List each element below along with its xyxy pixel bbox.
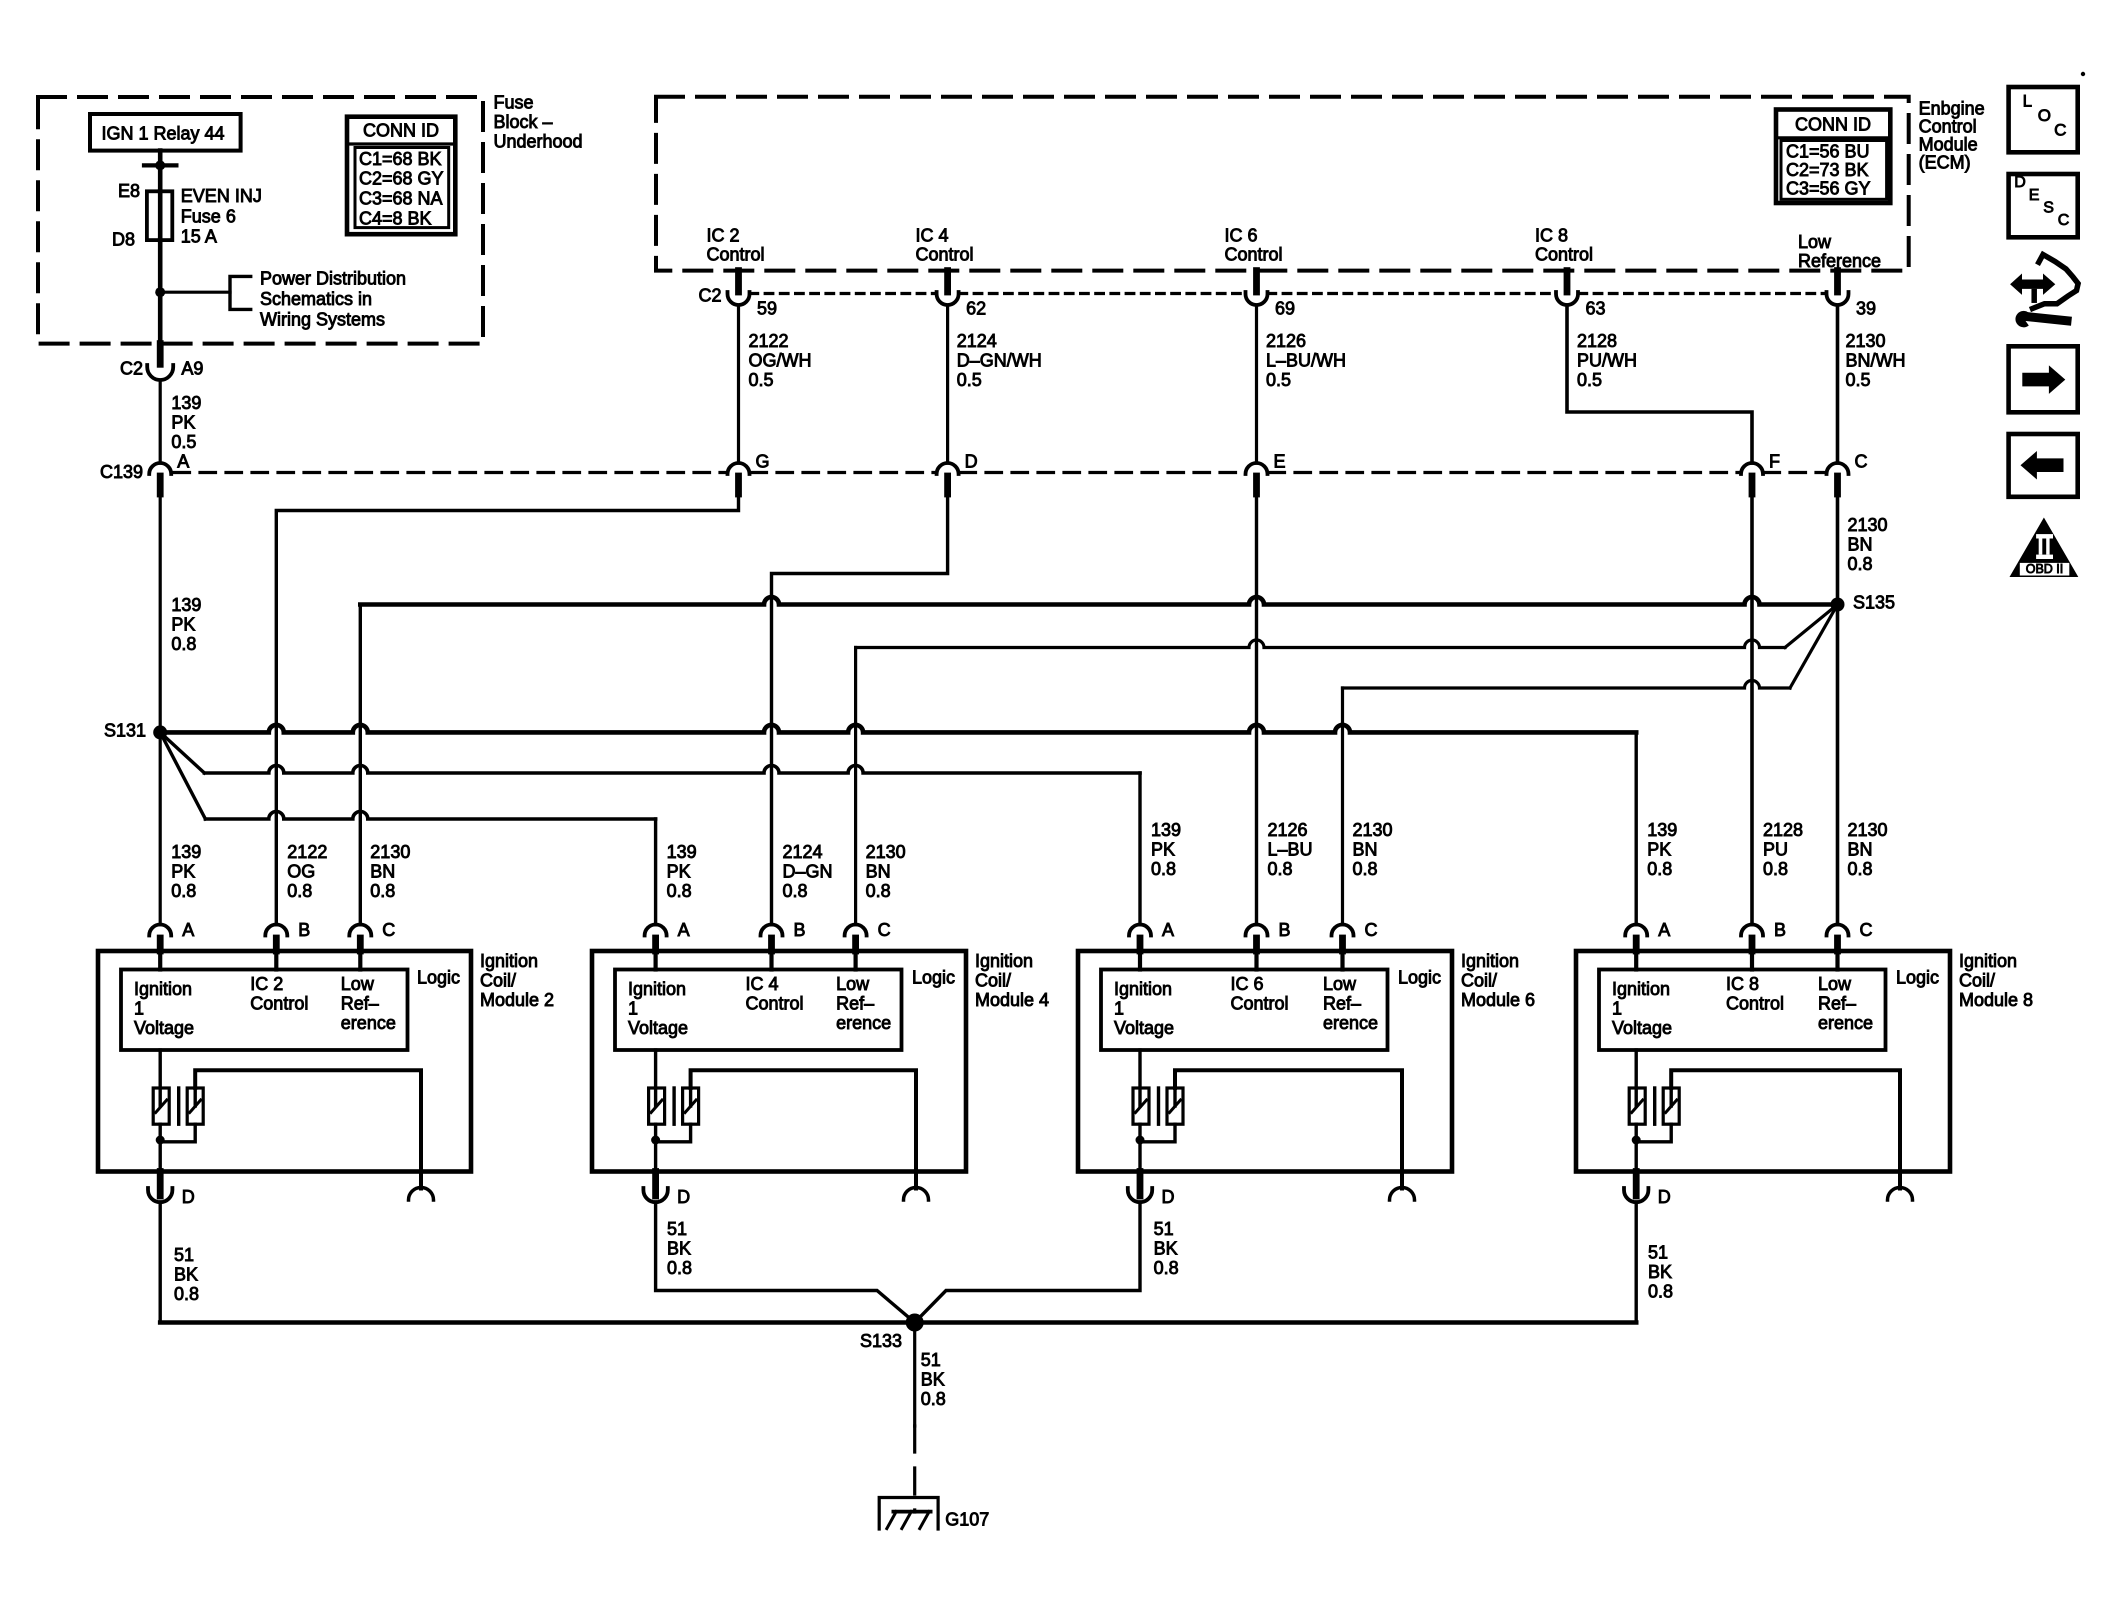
svg-text:51: 51: [667, 1219, 687, 1239]
svg-text:1: 1: [134, 998, 144, 1018]
wire 2122 OG to module 2 pin B: [276, 494, 738, 925]
connector pin D module 2: [157, 1172, 164, 1197]
svg-text:IC 4: IC 4: [746, 974, 779, 994]
svg-text:51: 51: [1648, 1243, 1668, 1263]
svg-text:Control: Control: [707, 245, 765, 265]
svg-text:0.8: 0.8: [1648, 1282, 1673, 1302]
svg-text:0.8: 0.8: [866, 881, 891, 901]
wire 2124 D-GN to module 4 pin B: [772, 494, 948, 925]
coil common junction module 2: [158, 1124, 161, 1171]
secondary lead module 8: [1671, 1070, 1900, 1188]
svg-text:Voltage: Voltage: [134, 1018, 194, 1038]
svg-text:OG: OG: [287, 862, 315, 882]
svg-text:C3=68 NA: C3=68 NA: [359, 189, 443, 209]
ignition coil/module 4 outer box: [592, 951, 966, 1172]
svg-text:IC 6: IC 6: [1231, 974, 1264, 994]
svg-text:2124: 2124: [957, 331, 997, 351]
svg-text:0.8: 0.8: [921, 1389, 946, 1409]
ignition coil primary winding module 4: [654, 1050, 657, 1106]
coil core module 6: [1157, 1088, 1160, 1124]
connector pin A module 8: [1625, 925, 1647, 936]
svg-text:IC 4: IC 4: [916, 226, 949, 246]
svg-text:Module 2: Module 2: [480, 990, 554, 1010]
svg-text:Low: Low: [1798, 232, 1832, 252]
connector pin B module 4: [761, 925, 783, 936]
spark plug terminal module 4: [904, 1188, 929, 1201]
svg-text:Voltage: Voltage: [1612, 1018, 1672, 1038]
svg-text:C: C: [382, 920, 395, 940]
svg-text:139: 139: [171, 842, 201, 862]
svg-text:B: B: [1279, 920, 1291, 940]
ground bus 51 BK: [160, 1320, 1636, 1325]
connector pin A module 6: [1129, 925, 1151, 936]
svg-text:Underhood: Underhood: [494, 132, 583, 152]
svg-text:0.5: 0.5: [957, 370, 982, 390]
svg-text:C3=56 GY: C3=56 GY: [1786, 179, 1871, 199]
secondary lead module 2: [195, 1070, 421, 1188]
svg-text:0.8: 0.8: [1763, 859, 1788, 879]
ignition coil/module 2 outer box: [98, 951, 471, 1172]
wire S133 to ground: [913, 1323, 916, 1427]
svg-text:Coil/: Coil/: [480, 971, 516, 991]
svg-text:2130: 2130: [1353, 820, 1393, 840]
spark plug terminal module 2: [409, 1188, 434, 1201]
svg-text:D: D: [1162, 1187, 1175, 1207]
ignition coil/module 6 outer box: [1078, 951, 1452, 1172]
svg-text:62: 62: [966, 299, 986, 319]
coil core module 2: [177, 1088, 180, 1124]
icon forward arrow box: [2009, 346, 2078, 412]
ECM connector pin 62: [944, 271, 951, 292]
svg-text:PK: PK: [171, 412, 195, 432]
svg-text:B: B: [298, 920, 310, 940]
icon wiring diagram symbol (arrow and wrench): [2010, 274, 2055, 295]
svg-text:OG/WH: OG/WH: [749, 351, 812, 371]
svg-text:0.8: 0.8: [667, 1258, 692, 1278]
svg-text:C4=8 BK: C4=8 BK: [359, 208, 432, 228]
wire IC2 control: [737, 305, 740, 463]
svg-text:E: E: [1274, 452, 1286, 472]
svg-text:Fuse 6: Fuse 6: [181, 206, 236, 226]
svg-text:69: 69: [1275, 299, 1295, 319]
svg-text:2130: 2130: [370, 842, 410, 862]
svg-text:Ignition: Ignition: [628, 979, 686, 999]
secondary lead module 6: [1175, 1070, 1402, 1188]
connector C139 cavity F: [1741, 463, 1763, 474]
svg-text:BK: BK: [667, 1239, 691, 1259]
svg-text:0.8: 0.8: [1268, 859, 1293, 879]
svg-text:0.5: 0.5: [749, 370, 774, 390]
module 2 pin leads inside box: [158, 951, 162, 970]
svg-text:PK: PK: [171, 614, 195, 634]
svg-text:L–BU: L–BU: [1268, 840, 1313, 860]
connector pin A module 2: [149, 925, 171, 936]
wire 2128 PU to module 8 pin B: [1750, 494, 1754, 925]
svg-text:IC 8: IC 8: [1726, 974, 1759, 994]
wire module 4 pin D to S133: [656, 1202, 915, 1323]
ECM connector pin 69: [1253, 271, 1260, 292]
svg-text:Power Distribution: Power Distribution: [260, 268, 406, 288]
svg-text:0.8: 0.8: [370, 881, 395, 901]
svg-text:BN: BN: [1353, 840, 1378, 860]
ignition coil primary winding module 2: [158, 1050, 161, 1106]
svg-text:1: 1: [1114, 998, 1124, 1018]
ECM dashed enclosure: [656, 97, 1909, 271]
svg-text:2124: 2124: [783, 842, 823, 862]
svg-text:PK: PK: [171, 862, 195, 882]
svg-text:Control: Control: [1535, 245, 1593, 265]
svg-text:D: D: [1658, 1187, 1671, 1207]
fuse F6: EVEN INJ Fuse 6 15 A: [158, 191, 163, 240]
svg-text:0.8: 0.8: [174, 1284, 199, 1304]
module 6 inner terminal box: [1101, 970, 1388, 1051]
svg-text:1: 1: [628, 998, 638, 1018]
svg-text:2130: 2130: [1848, 515, 1888, 535]
svg-text:Ignition: Ignition: [975, 951, 1033, 971]
svg-text:erence: erence: [1323, 1013, 1378, 1033]
svg-text:Control: Control: [1726, 994, 1784, 1014]
ground G107: [879, 1498, 938, 1530]
svg-text:Ignition: Ignition: [1114, 979, 1172, 999]
svg-text:S133: S133: [860, 1331, 902, 1351]
svg-text:CONN ID: CONN ID: [1795, 115, 1871, 135]
svg-text:Logic: Logic: [1398, 968, 1441, 988]
svg-text:C: C: [1365, 920, 1378, 940]
svg-text:Coil/: Coil/: [1959, 971, 1995, 991]
icon back arrow box: [2009, 434, 2078, 497]
connector pin B module 6: [1246, 925, 1268, 936]
svg-text:BN/WH: BN/WH: [1846, 351, 1906, 371]
connector pin C module 2: [349, 925, 371, 936]
svg-text:Low: Low: [836, 974, 870, 994]
svg-text:Logic: Logic: [912, 968, 955, 988]
svg-text:F: F: [1769, 452, 1780, 472]
svg-text:B: B: [794, 920, 806, 940]
svg-text:S131: S131: [104, 721, 146, 741]
connector row dotted line C2: [750, 292, 936, 295]
svg-text:2130: 2130: [1848, 820, 1888, 840]
svg-text:Low: Low: [341, 974, 375, 994]
connector pin D module 4: [652, 1172, 659, 1197]
connector pin C module 6: [1332, 925, 1354, 936]
svg-text:O: O: [2038, 106, 2051, 125]
svg-text:Module 6: Module 6: [1461, 990, 1535, 1010]
svg-text:2130: 2130: [866, 842, 906, 862]
svg-text:Module 4: Module 4: [975, 990, 1049, 1010]
svg-text:D–GN: D–GN: [783, 862, 833, 882]
svg-text:Control: Control: [746, 994, 804, 1014]
svg-text:Control: Control: [1225, 245, 1283, 265]
svg-text:Low: Low: [1323, 974, 1357, 994]
svg-text:IC 2: IC 2: [250, 974, 283, 994]
svg-text:A: A: [1658, 920, 1670, 940]
wire low reference: [1836, 305, 1840, 463]
svg-text:Fuse: Fuse: [494, 93, 534, 113]
coil common junction module 4: [654, 1124, 657, 1171]
connector C139 cavity E: [1246, 463, 1268, 474]
wire S135 branch to module 6 pin C: [1790, 605, 1838, 689]
svg-text:0.5: 0.5: [1846, 370, 1871, 390]
svg-text:139: 139: [667, 842, 697, 862]
svg-text:PU/WH: PU/WH: [1577, 351, 1637, 371]
svg-text:63: 63: [1586, 299, 1606, 319]
relay K: IGN 1 Relay 44: [90, 114, 241, 151]
wire module 2 pin D to ground bus: [158, 1202, 161, 1323]
svg-text:D–GN/WH: D–GN/WH: [957, 351, 1042, 371]
connector pin D module 6: [1137, 1172, 1144, 1197]
svg-text:Ref–: Ref–: [1323, 994, 1361, 1014]
svg-text:Control: Control: [1919, 117, 1977, 137]
svg-text:51: 51: [174, 1245, 194, 1265]
wire S131 branch to module 4 pin A: [160, 732, 205, 819]
svg-text:C: C: [1855, 452, 1868, 472]
svg-text:D: D: [2014, 174, 2026, 191]
svg-text:BN: BN: [866, 862, 891, 882]
wire 139 PK to C139: [159, 380, 162, 463]
wire junction to bracket: [160, 291, 230, 294]
coil common junction module 6: [1138, 1124, 1141, 1171]
svg-text:Ignition: Ignition: [1461, 951, 1519, 971]
svg-text:51: 51: [1154, 1219, 1174, 1239]
svg-text:0.8: 0.8: [171, 634, 196, 654]
connector C139 cavity C: [1827, 463, 1849, 474]
wire S135 branch to module 2 pin C: [360, 597, 1837, 604]
svg-text:2122: 2122: [287, 842, 327, 862]
svg-text:E8: E8: [118, 181, 140, 201]
connector pin C module 8: [1827, 925, 1849, 936]
svg-text:Voltage: Voltage: [628, 1018, 688, 1038]
svg-text:0.8: 0.8: [171, 881, 196, 901]
icon OBD II triangle: [2010, 518, 2079, 578]
wire module 8 pin D to ground bus: [1634, 1202, 1637, 1323]
connector row C139 dashed line: [174, 471, 726, 474]
module 6 pin leads inside box: [1138, 951, 1142, 970]
svg-text:0.8: 0.8: [1647, 859, 1672, 879]
svg-text:Control: Control: [250, 994, 308, 1014]
svg-text:C: C: [2058, 212, 2070, 229]
coil core module 4: [672, 1088, 675, 1124]
svg-text:2126: 2126: [1268, 820, 1308, 840]
svg-text:D: D: [182, 1187, 195, 1207]
wire 2126 L-BU to module 6 pin B: [1255, 494, 1258, 925]
svg-text:Control: Control: [1231, 994, 1289, 1014]
svg-text:0.8: 0.8: [1848, 554, 1873, 574]
svg-text:S: S: [2043, 200, 2054, 217]
connector pin B module 2: [265, 925, 287, 936]
svg-text:D8: D8: [112, 229, 135, 249]
ignition coil secondary winding module 6: [1167, 1088, 1183, 1124]
svg-text:2130: 2130: [1846, 331, 1886, 351]
svg-text:Logic: Logic: [1896, 968, 1939, 988]
svg-text:2128: 2128: [1763, 820, 1803, 840]
ECM connector pin 39: [1834, 271, 1841, 292]
connector C2 pin A9 (fuse block output): [157, 344, 164, 365]
module 2 inner terminal box: [121, 970, 408, 1051]
svg-text:IC 8: IC 8: [1535, 226, 1568, 246]
wire IC8 control with jog: [1567, 305, 1752, 463]
svg-text:erence: erence: [836, 1013, 891, 1033]
connector C139 cavity D: [937, 463, 959, 474]
svg-text:0.8: 0.8: [287, 881, 312, 901]
connector C139 cavity A: [149, 463, 171, 474]
ignition coil primary winding module 6: [1138, 1050, 1141, 1106]
svg-text:0.5: 0.5: [171, 432, 196, 452]
svg-text:Block –: Block –: [494, 112, 553, 132]
ignition coil secondary winding module 8: [1663, 1088, 1679, 1124]
svg-text:1: 1: [1612, 998, 1622, 1018]
ignition coil secondary winding module 4: [683, 1088, 699, 1124]
svg-text:Ref–: Ref–: [836, 994, 874, 1014]
svg-text:(ECM): (ECM): [1919, 153, 1971, 173]
connector C139 cavity G: [728, 463, 750, 474]
svg-text:A: A: [182, 920, 194, 940]
svg-text:Wiring Systems: Wiring Systems: [260, 310, 385, 330]
svg-text:erence: erence: [1818, 1013, 1873, 1033]
svg-text:Voltage: Voltage: [1114, 1018, 1174, 1038]
svg-text:139: 139: [171, 595, 201, 615]
svg-text:B: B: [1774, 920, 1786, 940]
svg-text:Logic: Logic: [417, 968, 460, 988]
svg-text:Ignition: Ignition: [1612, 979, 1670, 999]
svg-text:Module: Module: [1919, 135, 1978, 155]
svg-text:C: C: [1860, 920, 1873, 940]
svg-text:Ignition: Ignition: [134, 979, 192, 999]
svg-text:C2=68 GY: C2=68 GY: [359, 169, 444, 189]
svg-text:EVEN INJ: EVEN INJ: [181, 186, 262, 206]
stray mark top right: [2081, 72, 2085, 76]
svg-text:D: D: [965, 452, 978, 472]
svg-text:2128: 2128: [1577, 331, 1617, 351]
svg-text:Ref–: Ref–: [341, 994, 379, 1014]
wire IC4 control: [946, 305, 949, 463]
svg-text:C2=73 BK: C2=73 BK: [1786, 160, 1869, 180]
svg-text:Control: Control: [916, 245, 974, 265]
svg-text:L: L: [2023, 92, 2032, 111]
spark plug terminal module 8: [1888, 1188, 1913, 1201]
svg-text:PK: PK: [667, 862, 691, 882]
svg-text:A: A: [678, 920, 690, 940]
svg-text:IC 2: IC 2: [707, 226, 740, 246]
svg-text:15 A: 15 A: [181, 227, 217, 247]
svg-text:C2: C2: [120, 359, 143, 379]
svg-text:BN: BN: [1848, 840, 1873, 860]
svg-text:0.8: 0.8: [1353, 859, 1378, 879]
svg-text:Schematics in: Schematics in: [260, 289, 372, 309]
svg-text:Coil/: Coil/: [975, 971, 1011, 991]
svg-text:BK: BK: [1154, 1239, 1178, 1259]
connector pin D module 8: [1633, 1172, 1640, 1197]
wire 2130 BN to S135: [1836, 494, 1840, 925]
svg-text:0.8: 0.8: [1154, 1258, 1179, 1278]
wire module 6 pin D to S133: [915, 1202, 1140, 1323]
svg-text:OBD II: OBD II: [2026, 562, 2064, 576]
svg-text:139: 139: [171, 393, 201, 413]
connector table CONN ID (fuse block): [347, 117, 455, 235]
svg-text:0.5: 0.5: [1266, 370, 1291, 390]
svg-text:BN: BN: [1848, 535, 1873, 555]
wire S135 branch to module 4 pin C: [1785, 605, 1838, 648]
svg-text:C1=68 BK: C1=68 BK: [359, 149, 442, 169]
module 4 pin leads inside box: [653, 951, 657, 970]
svg-text:CONN ID: CONN ID: [363, 120, 439, 140]
svg-text:Ref–: Ref–: [1818, 994, 1856, 1014]
svg-text:Ignition: Ignition: [480, 951, 538, 971]
svg-text:0.5: 0.5: [1577, 370, 1602, 390]
wire relay output: [158, 151, 163, 192]
svg-text:BK: BK: [921, 1369, 945, 1389]
icon LOC box: [2009, 87, 2078, 152]
svg-text:139: 139: [1151, 820, 1181, 840]
splice S135: [1831, 598, 1845, 612]
secondary lead module 4: [691, 1070, 916, 1188]
wire fuse to junction: [158, 240, 163, 344]
svg-text:BK: BK: [174, 1265, 198, 1285]
wire S131 branch to module 8 pin A: [160, 725, 1636, 732]
svg-text:0.8: 0.8: [667, 881, 692, 901]
svg-text:2126: 2126: [1266, 331, 1306, 351]
wire 139 PK to S131: [159, 494, 162, 925]
svg-text:A: A: [1162, 920, 1174, 940]
svg-text:39: 39: [1856, 299, 1876, 319]
svg-text:59: 59: [757, 299, 777, 319]
svg-text:C1=56 BU: C1=56 BU: [1786, 142, 1870, 162]
svg-text:0.8: 0.8: [1848, 859, 1873, 879]
svg-text:S135: S135: [1853, 592, 1895, 612]
svg-text:PU: PU: [1763, 840, 1788, 860]
module 4 inner terminal box: [615, 970, 902, 1051]
ignition coil/module 8 outer box: [1576, 951, 1950, 1172]
ignition coil secondary winding module 2: [187, 1088, 203, 1124]
svg-text:IC 6: IC 6: [1225, 226, 1258, 246]
svg-text:0.8: 0.8: [1151, 859, 1176, 879]
ECM connector pin 63: [1564, 271, 1571, 292]
svg-text:IGN 1 Relay 44: IGN 1 Relay 44: [102, 124, 225, 144]
svg-text:BK: BK: [1648, 1262, 1672, 1282]
wire S131 branch to module 6 pin A: [160, 732, 204, 773]
svg-text:BN: BN: [370, 862, 395, 882]
svg-text:G107: G107: [945, 1510, 989, 1530]
spark plug terminal module 6: [1390, 1188, 1415, 1201]
wire IC6 control: [1255, 305, 1258, 463]
svg-text:G: G: [756, 452, 770, 472]
svg-text:C: C: [878, 920, 891, 940]
svg-text:erence: erence: [341, 1013, 396, 1033]
connector pin C module 4: [845, 925, 867, 936]
splice S131: [153, 725, 167, 739]
junction dot power distribution tap: [155, 287, 165, 297]
connector table CONN ID (ECM): [1776, 110, 1890, 204]
svg-text:51: 51: [921, 1350, 941, 1370]
connector pin B module 8: [1741, 925, 1763, 936]
splice S133: [906, 1314, 924, 1332]
relay terminal crossbar: [144, 163, 176, 167]
svg-text:Ignition: Ignition: [1959, 951, 2017, 971]
svg-text:E: E: [2029, 187, 2040, 204]
svg-text:PK: PK: [1647, 840, 1671, 860]
svg-text:L–BU/WH: L–BU/WH: [1266, 351, 1346, 371]
svg-text:A9: A9: [181, 359, 203, 379]
svg-text:D: D: [677, 1187, 690, 1207]
ignition coil primary winding module 8: [1634, 1050, 1637, 1106]
svg-text:Enbgine: Enbgine: [1919, 99, 1985, 119]
module 8 inner terminal box: [1599, 970, 1886, 1051]
svg-text:2122: 2122: [749, 331, 789, 351]
svg-text:PK: PK: [1151, 840, 1175, 860]
svg-text:Module 8: Module 8: [1959, 990, 2033, 1010]
svg-text:A: A: [177, 452, 189, 472]
svg-text:Low: Low: [1818, 974, 1852, 994]
svg-text:0.8: 0.8: [783, 881, 808, 901]
